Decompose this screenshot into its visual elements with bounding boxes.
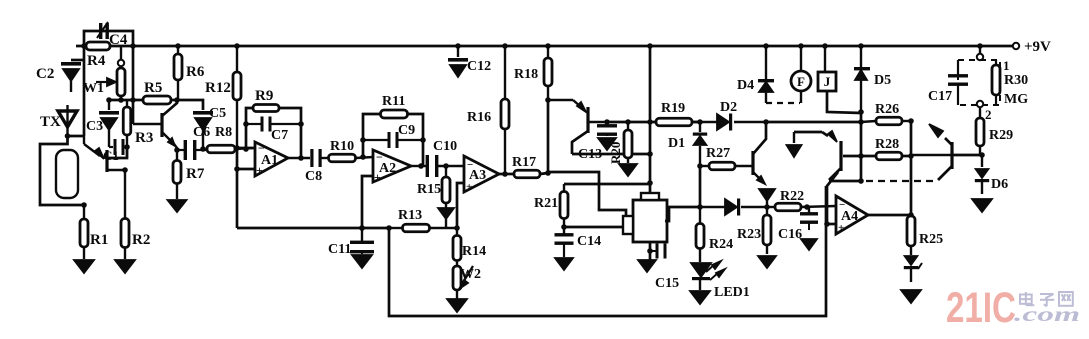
transistor Q3	[794, 131, 841, 180]
svg-text:D1: D1	[668, 136, 685, 151]
resistor R29	[976, 107, 1013, 155]
ground R20	[619, 164, 637, 176]
svg-text:C9: C9	[398, 123, 415, 138]
wire +9V top rail	[76, 45, 1014, 48]
resistor R18	[514, 46, 552, 100]
svg-text:F: F	[797, 74, 805, 89]
ground W2	[447, 299, 467, 312]
svg-text:R16: R16	[467, 110, 491, 125]
wire column rail to box	[649, 46, 652, 194]
node x133 row	[130, 97, 136, 103]
svg-text:C1: C1	[103, 148, 119, 163]
node R18 bottom	[545, 97, 551, 103]
potentiometer W2	[453, 266, 481, 299]
node C7 right	[298, 121, 304, 127]
svg-text:C16: C16	[778, 227, 802, 242]
svg-text:R1: R1	[90, 232, 108, 248]
resistor R6	[174, 46, 205, 100]
node D5 J join	[858, 109, 864, 115]
svg-text:R20: R20	[608, 142, 623, 164]
node R6 top	[175, 43, 181, 49]
wire left column	[83, 46, 86, 136]
svg-text:−: −	[467, 159, 473, 171]
svg-text:R6: R6	[186, 64, 205, 80]
diode D3	[700, 199, 767, 216]
node R16 top	[502, 43, 508, 49]
svg-text:R19: R19	[661, 101, 685, 116]
svg-text:C5: C5	[209, 106, 226, 121]
svg-text:R12: R12	[205, 80, 231, 96]
node A1 fb input	[243, 146, 249, 152]
wire R19 right	[692, 121, 700, 124]
capacitor C16	[778, 207, 818, 242]
svg-text:D5: D5	[874, 73, 891, 88]
svg-text:D6: D6	[991, 177, 1008, 192]
watermark 21IC.com	[946, 284, 1080, 332]
capacitor C12	[448, 46, 491, 77]
capacitor C14	[555, 233, 602, 257]
relay J	[818, 46, 836, 91]
svg-text:+: +	[838, 222, 844, 234]
wire Q3 to A4 col	[827, 172, 838, 224]
node col row183	[647, 180, 653, 186]
wire A3 output	[499, 173, 513, 176]
wire R18 column down	[547, 100, 550, 173]
node R5 right	[174, 97, 180, 103]
svg-text:C4: C4	[109, 32, 128, 48]
svg-text:R15: R15	[417, 182, 441, 197]
node R1 top	[81, 202, 87, 208]
node D1 top	[697, 119, 703, 125]
wire R17 right	[540, 173, 548, 174]
node R13 left	[386, 225, 392, 231]
LED LED1	[691, 261, 750, 300]
node R27 left	[697, 163, 703, 169]
terminal MG 2	[977, 101, 983, 107]
svg-text:+: +	[374, 170, 381, 184]
transistor Q4	[911, 124, 952, 180]
svg-text:R29: R29	[989, 128, 1013, 143]
svg-text:R4: R4	[87, 53, 106, 69]
transistor Q5	[548, 100, 607, 154]
svg-text:−: −	[376, 150, 383, 164]
node col rail	[647, 43, 653, 49]
node C5 bottom	[200, 146, 206, 152]
capacitor C13	[578, 122, 617, 162]
resistor R8	[193, 125, 252, 153]
resistor R3	[123, 100, 153, 158]
svg-text:C3: C3	[86, 119, 103, 134]
capacitor C1	[103, 139, 127, 163]
node C12 top	[455, 43, 461, 49]
ground C14	[555, 258, 573, 270]
node C9 left	[360, 137, 366, 143]
resistor R11	[381, 94, 408, 118]
svg-text:A1: A1	[261, 153, 278, 168]
node C16 top	[804, 204, 810, 210]
resistor R14	[453, 228, 486, 266]
resistor R2	[121, 170, 150, 259]
diode D7 zener	[904, 256, 922, 282]
wire R28 right	[902, 155, 911, 158]
wire A1 feedback right	[279, 108, 301, 158]
wire box bottom	[649, 242, 652, 262]
resistor R25	[907, 216, 943, 255]
svg-text:R17: R17	[512, 155, 536, 170]
op-amp A2	[373, 150, 411, 184]
wire D2 to R26 row	[766, 121, 861, 124]
resistor R26	[861, 102, 911, 125]
svg-text:MG: MG	[1004, 92, 1028, 107]
svg-text:D2: D2	[720, 100, 737, 115]
wire A1 inv input	[237, 147, 256, 150]
diode D2	[692, 100, 766, 131]
svg-text:W2: W2	[460, 267, 481, 282]
node C3 top	[106, 97, 112, 103]
node R13 right	[454, 225, 460, 231]
node R17 right junction	[545, 170, 551, 176]
wire A4 noninv	[827, 223, 836, 226]
wire row207 stub	[665, 207, 700, 221]
wire A1 noninv input	[237, 168, 256, 171]
svg-text:R8: R8	[215, 125, 232, 140]
ground D6	[972, 199, 992, 212]
resistor R12	[205, 46, 241, 148]
arrow below R15	[438, 203, 454, 228]
ground C16	[801, 239, 817, 250]
wire collector dashed	[866, 180, 934, 182]
resistor R23	[737, 207, 771, 254]
resistor R20	[608, 122, 632, 164]
svg-text:J: J	[824, 74, 831, 89]
wire column from rail	[132, 46, 135, 124]
svg-text:TX: TX	[40, 114, 61, 130]
resistor R13	[389, 208, 457, 232]
wire noninv common row	[237, 227, 389, 230]
node J top	[822, 43, 828, 49]
svg-text:C8: C8	[305, 169, 322, 184]
node A2 plus crossing	[359, 225, 365, 231]
node W1 bottom	[118, 97, 124, 103]
antenna TX	[58, 105, 77, 136]
resistor R28	[875, 137, 902, 160]
wire D4-F dashed	[766, 102, 800, 104]
wire Q3 collector solid	[829, 180, 861, 183]
svg-text:D4: D4	[737, 78, 754, 93]
capacitor C2	[36, 62, 81, 92]
svg-text:LED1: LED1	[714, 285, 750, 300]
node D4 top	[763, 43, 769, 49]
diode D1	[668, 122, 707, 166]
wiper W1 arrow	[96, 78, 116, 86]
svg-text:R22: R22	[780, 189, 804, 204]
svg-text:C2: C2	[36, 66, 54, 82]
label TX	[40, 114, 61, 130]
node R4-W1 junction	[130, 43, 136, 49]
wire Q5 collector row	[572, 153, 650, 156]
ground C15	[638, 260, 656, 272]
svg-text:R24: R24	[709, 237, 733, 252]
flasher F	[791, 46, 811, 103]
node R20 top	[625, 119, 631, 125]
svg-text:+: +	[466, 181, 472, 193]
terminal MG 1	[977, 54, 983, 60]
node R28 right	[908, 153, 914, 159]
svg-text:C17: C17	[928, 89, 952, 104]
resistor R17	[512, 155, 540, 178]
transducer body	[56, 150, 78, 198]
diode D6	[975, 155, 1008, 194]
wire C2 tap	[71, 59, 84, 62]
node A1 noninv	[234, 166, 240, 172]
node A4 plus col	[824, 221, 830, 227]
node R28 left col	[858, 153, 864, 159]
resistor R16	[467, 46, 509, 174]
node R23 top	[764, 204, 770, 210]
resistor R22	[767, 189, 836, 211]
capacitor C3	[86, 100, 119, 147]
capacitor C7	[246, 117, 301, 144]
svg-text:+: +	[256, 163, 263, 177]
wire A2 feedback left	[363, 114, 380, 157]
label 1	[1003, 58, 1010, 73]
node Q6 collector	[763, 119, 769, 125]
capacitor C10	[411, 139, 464, 177]
node Q2 emitter	[174, 147, 180, 153]
svg-text:C13: C13	[578, 147, 602, 162]
svg-text:C6: C6	[193, 125, 210, 140]
svg-text:R7: R7	[186, 166, 205, 182]
transistor Q1	[84, 136, 125, 172]
wire D1 column down	[699, 166, 702, 207]
svg-text:2: 2	[985, 107, 992, 122]
node box bottom	[647, 248, 653, 254]
node C14 top	[561, 224, 567, 230]
resistor R30	[992, 60, 1028, 105]
wire Q4 base right	[952, 154, 982, 157]
svg-text:C14: C14	[577, 234, 601, 249]
node C9 right	[420, 137, 426, 143]
svg-text:R13: R13	[398, 208, 422, 223]
node A1 output	[298, 155, 304, 161]
wire C14 row to tab	[564, 226, 624, 229]
wire MG drop	[979, 46, 981, 54]
resistor R15	[417, 166, 450, 203]
resistor R1	[80, 205, 108, 259]
terminal +9V	[1013, 39, 1051, 55]
svg-text:R27: R27	[706, 146, 730, 161]
resistor R9	[253, 88, 279, 112]
node C13 top	[604, 119, 610, 125]
ground R2	[115, 260, 135, 273]
svg-text:R23: R23	[737, 227, 761, 242]
capacitor C4	[97, 22, 128, 48]
svg-text:W1: W1	[83, 81, 104, 96]
svg-text:R14: R14	[462, 244, 486, 259]
wire Q5 base row	[607, 121, 656, 124]
resistor R21	[534, 184, 568, 236]
node dashed start	[858, 178, 864, 184]
wire A2 noninv input	[362, 176, 373, 228]
svg-text:R28: R28	[875, 137, 899, 152]
ground R23	[758, 256, 776, 268]
capacitor C5	[180, 100, 226, 149]
node R3 bottom	[124, 144, 130, 150]
node R16 bottom output	[502, 171, 508, 177]
svg-text:C11: C11	[328, 242, 351, 257]
wire D5 column	[860, 112, 863, 181]
svg-text:C10: C10	[433, 139, 457, 154]
ground R7	[168, 200, 187, 212]
svg-text:R11: R11	[382, 94, 405, 109]
node D5 col row122	[858, 119, 864, 125]
svg-text:21IC: 21IC	[946, 284, 1016, 332]
node R12 bottom A1 inv input	[234, 145, 240, 151]
potentiometer W1	[83, 46, 125, 100]
resistor R19	[656, 101, 692, 126]
svg-text:R3: R3	[135, 130, 153, 146]
node A3 inv node	[443, 163, 449, 169]
wire column R26R28 down	[910, 121, 913, 217]
svg-text:R9: R9	[255, 88, 273, 104]
wire R5 right node	[171, 99, 180, 102]
node D5 top	[858, 43, 864, 49]
node row207 left	[697, 204, 703, 210]
wire R21 top row	[564, 183, 650, 186]
node Q4 base right	[979, 152, 985, 158]
node col row154	[647, 151, 653, 157]
label 2	[985, 107, 992, 122]
wire R17 row to box tab	[548, 172, 626, 217]
diode D4	[737, 46, 774, 103]
svg-text:R2: R2	[132, 232, 150, 248]
wire TX to Q1 emitter	[68, 135, 85, 138]
wire A3 noninv input	[457, 183, 464, 228]
svg-text:1: 1	[1003, 58, 1010, 73]
ground C11	[352, 255, 372, 268]
label MG	[1004, 92, 1028, 107]
op-amp A1	[255, 141, 288, 177]
transistor Q2	[133, 100, 177, 148]
svg-text:R21: R21	[534, 196, 558, 211]
ground LED1	[690, 291, 710, 304]
svg-text:C7: C7	[271, 128, 288, 143]
wire C4 bypass loop	[84, 31, 133, 46]
node F top	[798, 43, 804, 49]
capacitor C15	[650, 244, 679, 292]
svg-text:R25: R25	[919, 232, 943, 247]
resistor R4	[86, 42, 110, 69]
node R26 right	[908, 118, 914, 124]
ground R1	[74, 260, 94, 273]
resistor R7	[173, 150, 205, 199]
svg-text:R5: R5	[144, 80, 162, 96]
dashed box MG	[958, 60, 1000, 105]
diode D5	[854, 46, 891, 112]
svg-text:−: −	[258, 141, 265, 155]
node R12 top	[234, 43, 240, 49]
svg-text:R10: R10	[330, 139, 354, 154]
wire left loop	[40, 136, 84, 205]
ground R25	[901, 290, 921, 303]
ground C13	[598, 138, 616, 150]
node TX junction	[65, 133, 71, 139]
wire A1 feedback left	[246, 108, 253, 149]
capacitor C11	[328, 228, 374, 257]
arrow Q3 relay contact	[787, 145, 802, 157]
wire R3 bottom to Q1 base	[107, 147, 127, 158]
transducer box B1	[623, 193, 667, 242]
svg-text:.com: .com	[1014, 302, 1080, 326]
svg-text:−: −	[839, 199, 845, 211]
node A2 output	[418, 163, 424, 169]
node A4 out R25	[908, 212, 914, 218]
resistor R24	[696, 207, 733, 262]
node R2 top	[122, 167, 128, 173]
wire A4 output	[868, 214, 911, 217]
transistor Q6	[753, 122, 766, 184]
svg-text:R18: R18	[514, 67, 538, 82]
svg-text:R26: R26	[875, 102, 899, 117]
node R18 top	[545, 43, 551, 49]
node top-rail left junction	[81, 43, 87, 49]
svg-text:C15: C15	[655, 276, 679, 291]
svg-text:C12: C12	[467, 59, 491, 74]
capacitor C8	[288, 149, 330, 184]
op-amp A3	[464, 156, 499, 193]
node C11 top	[359, 225, 365, 231]
wire R28 row	[843, 155, 876, 158]
resistor R5	[143, 80, 171, 104]
resistor R27	[700, 146, 753, 170]
node MG top	[977, 43, 983, 49]
wire A2 feedback right	[407, 114, 423, 166]
capacitor C17	[928, 60, 968, 105]
capacitor C9	[363, 123, 423, 148]
wire bottom rail	[389, 186, 826, 316]
op-amp A4	[836, 196, 868, 234]
wire base bias row	[109, 99, 143, 102]
arrow Q6 emitter	[759, 189, 775, 207]
svg-text:R30: R30	[1004, 73, 1028, 88]
svg-text:+9V: +9V	[1024, 39, 1051, 55]
capacitor C6	[177, 125, 210, 160]
wire R12 column down	[236, 148, 239, 228]
resistor R10	[329, 139, 374, 162]
node C7 left	[243, 121, 249, 127]
wire J down	[827, 91, 861, 113]
node col row122	[647, 119, 653, 125]
node A2 inv node	[360, 154, 366, 160]
